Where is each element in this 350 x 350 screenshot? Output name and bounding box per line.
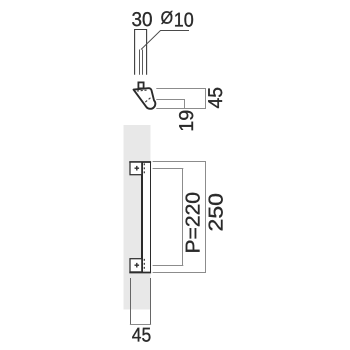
dimension line 250 — [205, 161, 207, 273]
svg-text:45: 45 — [132, 325, 152, 347]
handle bar left edge — [141, 162, 143, 274]
handle bar fill — [141, 161, 151, 273]
handle bar right edge — [150, 162, 152, 274]
extension line grip top — [156, 88, 206, 90]
dimension line 19 — [184, 99, 186, 109]
svg-text:250: 250 — [205, 193, 227, 232]
svg-text:30: 30 — [132, 9, 153, 31]
dimension line 45 bottom — [130, 324, 151, 326]
extension line top screw (P) — [153, 168, 184, 170]
top bracket hidden line — [143, 163, 145, 175]
extension line bar bottom (250) — [153, 272, 206, 274]
top bracket — [130, 162, 142, 175]
bottom bracket hidden line — [143, 259, 145, 271]
svg-text:10: 10 — [174, 9, 194, 31]
side view hidden line under top edge — [137, 89, 148, 92]
door edge line left (45 extension) — [130, 278, 132, 325]
extension line grip bottom — [156, 108, 206, 110]
svg-text:19: 19 — [176, 110, 198, 132]
top view hole lines (Ø10) — [140, 50, 143, 75]
svg-text:P=220: P=220 — [183, 192, 205, 254]
bottom bracket — [130, 259, 142, 272]
extension line bar top (250) — [153, 161, 206, 163]
dimension line 45 side — [205, 88, 207, 109]
bottom bracket screw — [135, 263, 140, 268]
handle bar bottom cap — [129, 272, 151, 274]
svg-text:Ø: Ø — [161, 8, 174, 28]
extension line bottom screw (P) — [153, 265, 184, 267]
side view hidden hole dashes — [145, 98, 150, 103]
svg-text:45: 45 — [205, 87, 227, 109]
door edge line right (45 extension) — [150, 278, 152, 325]
top bracket screw — [135, 166, 140, 171]
leader line Ø10 — [141, 31, 189, 50]
top view grip outline (30mm wide) — [135, 30, 147, 75]
extension line 19 top — [156, 99, 185, 101]
dimension line P=220 — [182, 168, 184, 266]
side view grip outline — [134, 88, 156, 109]
door panel (gray strip) — [124, 125, 151, 310]
side view mounting post — [138, 82, 143, 88]
handle bar top cap — [129, 161, 151, 163]
